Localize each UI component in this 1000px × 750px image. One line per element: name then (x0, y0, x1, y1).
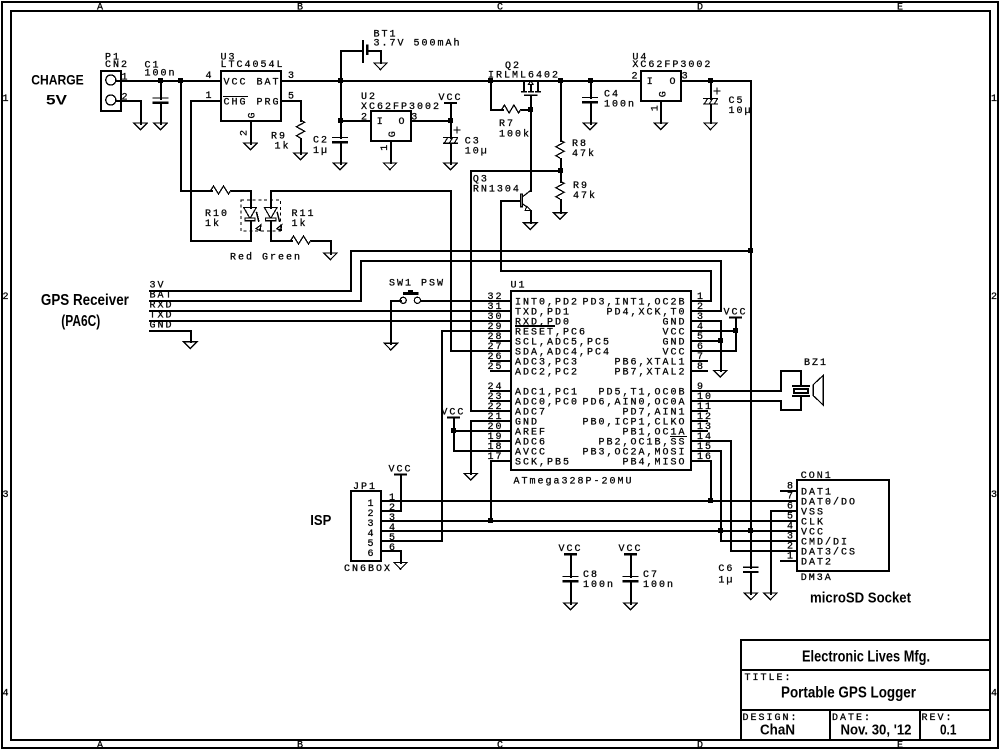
capacitor C1 100n (145, 60, 177, 125)
LED green (264, 208, 277, 219)
svg-text:BAT: BAT (257, 78, 281, 89)
wire VCC pin4 (691, 330, 737, 332)
pin 13 U1 (691, 422, 713, 433)
wire switched 3V rail down (750, 80, 752, 569)
title block (740, 640, 991, 741)
svg-text:O: O (670, 77, 678, 88)
ground JP1 (394, 562, 407, 569)
IC U3 LTC4054L (221, 52, 285, 121)
wire MOSI net (380, 450, 798, 542)
svg-text:5V: 5V (46, 92, 68, 108)
svg-text:IRLML6402: IRLML6402 (488, 70, 560, 81)
junction R8 (558, 78, 563, 83)
junction MISO (708, 498, 713, 503)
pin 12 U1 (691, 412, 713, 423)
svg-text:CN2: CN2 (105, 60, 129, 71)
wire SCK pin17 to ISP pin3 (490, 460, 512, 522)
pin 9 U1 (697, 382, 705, 393)
power VCC at U2 output (439, 93, 463, 122)
wire BAT rail to R10 (180, 80, 213, 192)
svg-text:B: B (297, 741, 305, 750)
capacitor C4 100n (582, 80, 636, 125)
pin 21 U1 (487, 412, 503, 423)
junction 3V tap (748, 248, 753, 253)
pin 3 JP1 (389, 513, 397, 524)
ground C2 (333, 163, 346, 170)
pin 3 label U3 (280, 71, 342, 82)
svg-text:D: D (697, 741, 705, 750)
pin 22 U1 (487, 402, 503, 413)
pin 26 U1 (487, 352, 512, 363)
svg-text:3.7V 500mAh: 3.7V 500mAh (374, 37, 462, 49)
resistor R10 1k (205, 186, 231, 230)
pin 8 CON1 (780, 482, 798, 493)
svg-text:B: B (297, 2, 305, 13)
pin 1 U1 (697, 292, 705, 303)
svg-text:3: 3 (991, 490, 999, 501)
pin 14 U1 (697, 432, 713, 443)
pin 24 U1 (487, 382, 512, 393)
svg-text:6: 6 (367, 549, 375, 560)
wire battery rail (340, 80, 492, 82)
pin 5 JP1 (389, 533, 397, 544)
svg-text:100n: 100n (604, 99, 636, 110)
ground R11 (324, 253, 337, 260)
ground Q3 emitter (524, 223, 537, 230)
ground U2 (383, 163, 396, 170)
pin 27 U1 (487, 342, 503, 353)
pin 4 U1 (697, 322, 705, 333)
svg-text:1: 1 (3, 94, 11, 105)
pin 23 U1 (487, 392, 512, 403)
svg-text:(PA6C): (PA6C) (61, 313, 100, 330)
ground C8 (564, 603, 577, 610)
ground GPS (184, 342, 197, 349)
pin 11 U1 (691, 402, 713, 413)
wire JP1 pin2 VCC (380, 510, 402, 512)
junction divider (558, 168, 563, 173)
ground U4 (654, 123, 667, 130)
pin 2 U2 (340, 112, 372, 123)
wire U1 pin10 to buzzer (691, 400, 782, 402)
wire U1 pin15 (691, 450, 722, 452)
buzzer BZ1 (780, 358, 828, 411)
svg-text:1: 1 (651, 103, 662, 111)
pin 2 CON1 (787, 542, 795, 553)
regulator U4 XC62FP3002 (632, 52, 712, 101)
svg-text:GND: GND (150, 320, 174, 331)
svg-text:ISP: ISP (310, 512, 331, 529)
pin 8 U1 (691, 362, 708, 373)
wire AVCC (453, 450, 512, 452)
svg-text:CN6BOX: CN6BOX (344, 564, 392, 575)
capacitor C3 10u (443, 120, 489, 165)
junction GND pin5 (718, 338, 723, 343)
svg-text:CHARGE: CHARGE (31, 72, 84, 88)
pin 25 U1 (487, 362, 512, 373)
pin 5 U1 (697, 332, 705, 343)
pin 16 U1 (697, 452, 713, 463)
wire Q3 base to U1 pin1 (500, 200, 712, 302)
pin 2 U1 (697, 302, 705, 313)
svg-text:0.1: 0.1 (940, 723, 957, 739)
svg-text:PB7,XTAL2: PB7,XTAL2 (614, 367, 686, 378)
LED pair dashed outline (241, 200, 281, 231)
junction VCC pin4 (733, 328, 738, 333)
svg-text:ATmega328P-20MU: ATmega328P-20MU (514, 477, 634, 488)
pin 15 U1 (697, 442, 713, 453)
ground VSS (764, 593, 777, 600)
pin 3 U2 (410, 112, 452, 123)
capacitor C8 100n (563, 570, 615, 605)
connector CON1 DM3A (797, 471, 889, 584)
svg-text:R7: R7 (499, 119, 515, 130)
pin 2 JP1 (389, 503, 397, 514)
svg-text:2: 2 (991, 292, 999, 303)
pin 30 U1 (487, 312, 503, 323)
junction C5 (708, 78, 713, 83)
junction C4 (588, 78, 593, 83)
svg-text:C2: C2 (313, 135, 329, 146)
wire AREF (453, 430, 512, 432)
wire rail R8 to C4 (560, 80, 592, 82)
svg-text:TITLE:: TITLE: (745, 673, 793, 684)
regulator U2 XC62FP3002 (361, 92, 441, 141)
svg-text:Electronic Lives Mfg.: Electronic Lives Mfg. (802, 649, 930, 666)
junction Q2 source R7 (488, 78, 493, 83)
pin 7 CON1 (787, 492, 795, 503)
pin 29 U1 (487, 322, 503, 333)
wire TXD to U1 pin30 (149, 320, 512, 322)
svg-text:Portable GPS Logger: Portable GPS Logger (781, 685, 916, 702)
wire SW1 to ground (390, 300, 402, 345)
svg-text:G: G (388, 129, 399, 137)
svg-text:I: I (647, 77, 655, 88)
pin 5 CON1 (787, 512, 795, 523)
svg-text:1k: 1k (275, 140, 291, 152)
junction U2 output (448, 118, 453, 123)
wire RXD to U1 pin31 (149, 310, 512, 312)
wire U1 pin9 to buzzer (691, 390, 782, 392)
junction R10 feed (178, 78, 183, 83)
svg-text:4: 4 (991, 688, 999, 699)
svg-text:GPS Receiver: GPS Receiver (41, 292, 129, 309)
pin 3 U4 (681, 71, 752, 82)
svg-text:4: 4 (3, 688, 11, 699)
svg-text:Nov. 30, '12: Nov. 30, '12 (841, 723, 912, 739)
pin 17 U1 (487, 452, 503, 463)
svg-text:2: 2 (632, 71, 640, 82)
switch SW1 PSW (389, 279, 445, 304)
pin 1 stub U2 (380, 140, 392, 164)
pin 18 U1 (487, 442, 503, 453)
wire VCC to CON1 (750, 530, 798, 532)
wire R10 to red LED (231, 190, 252, 209)
ground C1 (154, 123, 167, 130)
svg-text:BZ1: BZ1 (804, 358, 828, 369)
svg-text:1k: 1k (292, 218, 308, 230)
wire GND pin5 (691, 340, 722, 342)
svg-text:PRG: PRG (257, 98, 281, 109)
svg-text:E: E (897, 2, 905, 13)
ground P1 (134, 123, 147, 130)
connector P1 CN2 (101, 52, 129, 111)
ground R9 47k (553, 213, 566, 220)
svg-text:3: 3 (3, 490, 11, 501)
wire P1 pin1 to C1 (115, 80, 162, 82)
power VCC at AREF AVCC (441, 407, 465, 452)
pin 3 U1 (697, 312, 705, 323)
resistor R8 47k (556, 80, 596, 172)
junction C1 (158, 78, 163, 83)
pin 31 U1 (487, 302, 503, 313)
svg-text:A: A (97, 741, 105, 750)
pin 5 label U3 (280, 92, 302, 103)
svg-text:G: G (248, 110, 259, 118)
power VCC at ISP (389, 464, 413, 512)
resistor R11 1k (291, 209, 316, 244)
svg-text:100n: 100n (583, 580, 615, 591)
wire Q2 gate to Q3 collector (530, 109, 532, 192)
svg-text:D: D (697, 2, 705, 13)
power VCC at C7 (619, 544, 643, 578)
svg-text:2: 2 (3, 292, 11, 303)
wire RESET to ISP pin5 (380, 330, 512, 542)
label GPS Receiver (41, 292, 129, 330)
svg-text:1µ: 1µ (313, 146, 329, 157)
svg-text:10µ: 10µ (729, 106, 753, 117)
wire green LED cathode to R11 (270, 220, 293, 242)
ground U1 pins 3 5 (714, 370, 727, 377)
battery BT1 3.7V 500mAh (340, 30, 462, 82)
ground C4 (583, 123, 596, 130)
power VCC at C8 (559, 544, 583, 578)
LED red (244, 208, 257, 219)
svg-text:10µ: 10µ (465, 146, 489, 157)
capacitor C2 1u (313, 80, 348, 165)
ground R9 (294, 153, 307, 160)
svg-text:DAT2: DAT2 (801, 557, 833, 568)
svg-text:C: C (497, 741, 505, 750)
pin 32 U1 (487, 292, 503, 303)
pin 4 JP1 (389, 523, 397, 534)
svg-text:I: I (377, 117, 385, 128)
svg-text:SW1 PSW: SW1 PSW (389, 279, 445, 290)
capacitor C5 10u (703, 80, 753, 124)
wire rail Q2 to R8 (490, 80, 562, 82)
svg-text:2: 2 (240, 128, 251, 136)
svg-text:Red Green: Red Green (230, 251, 302, 263)
svg-text:C6: C6 (718, 564, 734, 575)
ground C7 (624, 603, 637, 610)
svg-text:SCK,PB5: SCK,PB5 (515, 457, 571, 468)
node CHARGE 5V label (31, 72, 84, 108)
svg-text:1: 1 (380, 143, 391, 151)
svg-text:E: E (897, 741, 905, 750)
svg-text:CHG: CHG (224, 98, 248, 109)
capacitor C7 100n (623, 570, 675, 605)
svg-text:100n: 100n (145, 68, 177, 79)
ground U1 pin21 (464, 473, 477, 480)
ground C5 (704, 123, 717, 130)
svg-text:PB4,MISO: PB4,MISO (622, 457, 686, 468)
pin 19 U1 (487, 432, 512, 443)
svg-text:A: A (97, 2, 105, 13)
svg-text:microSD Socket: microSD Socket (810, 590, 911, 606)
svg-text:100n: 100n (643, 580, 675, 591)
junction Q2 gate (528, 107, 533, 112)
wire P1 pin2 to ground (115, 100, 142, 125)
pin 10 U1 (697, 392, 713, 403)
pin 7 U1 (691, 352, 708, 363)
wire red LED cathode to CHG (190, 100, 252, 242)
pin 1 JP1 (389, 493, 397, 504)
wire SS net (691, 440, 798, 552)
transistor Q3 RN1304 (473, 175, 532, 224)
pin 6 JP1 (389, 543, 397, 554)
transistor Q2 IRLML6402 (488, 61, 560, 111)
wire 3V to GPS (149, 250, 752, 292)
svg-text:U1: U1 (511, 280, 527, 291)
connector JP1 CN6BOX (344, 482, 392, 575)
wire CLK net (380, 520, 798, 522)
pin 3 CON1 (787, 532, 795, 543)
svg-text:1k: 1k (205, 218, 221, 230)
svg-text:O: O (399, 117, 407, 128)
pin 2 stub U3 (240, 120, 253, 145)
wire C1 to U3 pin4 (160, 80, 222, 82)
svg-text:1µ: 1µ (718, 576, 734, 587)
pin 1 stub U4 (651, 100, 663, 124)
svg-text:47k: 47k (572, 148, 596, 160)
ground C3 (444, 163, 457, 170)
svg-text:G: G (659, 89, 670, 97)
IC U1 ATmega328P-20MU (511, 280, 692, 487)
junction MOSI (718, 528, 723, 533)
pin 4 CON1 (787, 522, 795, 533)
pin 6 CON1 (787, 502, 795, 513)
svg-text:C: C (497, 2, 505, 13)
junction BT1 rail (338, 78, 343, 83)
wire MISO net (380, 460, 798, 502)
junction AREF (451, 428, 456, 433)
ground SW1 (384, 343, 397, 350)
power VCC at U1 pins 4 6 (691, 307, 748, 352)
ground C6 (744, 593, 757, 600)
svg-text:47k: 47k (573, 190, 597, 202)
wire VSS to ground (770, 510, 798, 595)
wire GND pin3 (691, 320, 722, 372)
wire divider to ADC7 (470, 170, 562, 412)
capacitor C6 1u (718, 530, 758, 595)
svg-text:ADC2,PC2: ADC2,PC2 (515, 367, 579, 378)
resistor R9 47k (556, 170, 597, 214)
wire rail C4 to U4 (590, 80, 642, 82)
pin 4 label U3 (200, 71, 222, 82)
wire GND gps to ground (149, 330, 192, 343)
svg-text:DM3A: DM3A (801, 573, 833, 584)
ground U3 pin2 (244, 143, 257, 150)
pin 20 U1 (487, 422, 503, 433)
junction SCK ISP (488, 518, 493, 523)
svg-text:1: 1 (991, 94, 999, 105)
ground BT1 (374, 63, 387, 70)
junction VCC CON1 (748, 528, 753, 533)
svg-text:VCC: VCC (224, 78, 248, 89)
svg-text:XC62FP3002: XC62FP3002 (632, 60, 712, 71)
svg-text:100k: 100k (499, 129, 531, 141)
wire green LED anode (270, 190, 512, 352)
pin 28 U1 (487, 332, 512, 343)
wire GND pin21 to ground (470, 420, 512, 475)
wire R11 to ground (311, 240, 332, 255)
svg-text:6: 6 (389, 543, 397, 554)
svg-text:LTC4054L: LTC4054L (221, 60, 285, 71)
resistor R9 1k (271, 100, 305, 155)
pin 1 CON1 (780, 552, 798, 563)
svg-text:ChaN: ChaN (760, 723, 795, 739)
wire SW1 to U1 pin32 (420, 300, 512, 302)
resistor R7 100k (490, 80, 532, 141)
wire BAT to U1 pin2 (149, 260, 722, 312)
svg-text:RN1304: RN1304 (473, 184, 521, 195)
wire JP1 pin6 to ground (380, 550, 402, 564)
pin 6 U1 (697, 342, 705, 353)
wire U1 pin16 (691, 460, 712, 462)
